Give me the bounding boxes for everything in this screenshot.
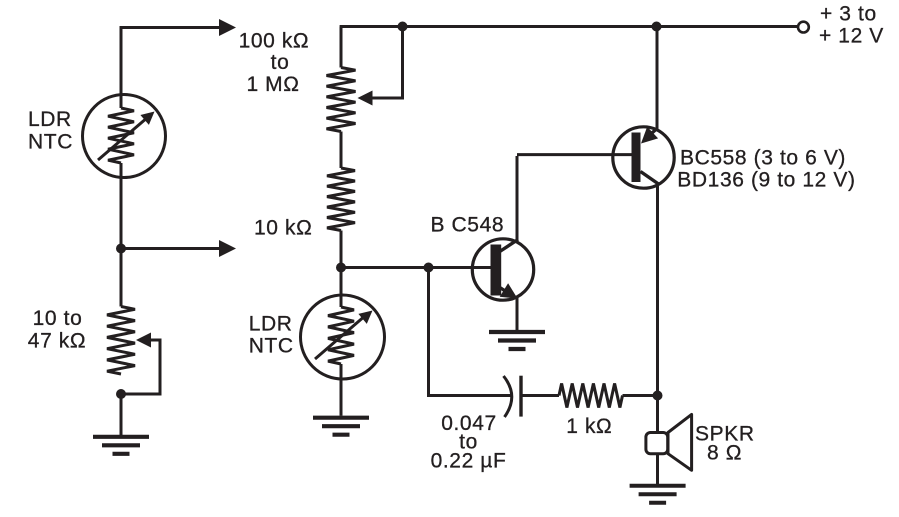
svg-text:1 kΩ: 1 kΩ <box>566 415 612 438</box>
svg-text:NTC: NTC <box>28 131 73 154</box>
svg-text:10 kΩ: 10 kΩ <box>254 217 312 240</box>
svg-text:1 MΩ: 1 MΩ <box>246 73 299 96</box>
svg-text:+ 3 to: + 3 to <box>820 3 877 26</box>
svg-text:+ 12 V: + 12 V <box>819 25 884 48</box>
svg-text:LDR: LDR <box>249 313 293 336</box>
svg-text:B C548: B C548 <box>431 214 505 237</box>
svg-text:BD136 (9 to 12 V): BD136 (9 to 12 V) <box>677 169 855 192</box>
svg-text:LDR: LDR <box>28 108 72 131</box>
svg-text:47 kΩ: 47 kΩ <box>28 330 86 353</box>
svg-text:NTC: NTC <box>249 335 294 358</box>
svg-text:100 kΩ: 100 kΩ <box>239 30 310 53</box>
svg-text:10 to: 10 to <box>33 307 83 330</box>
svg-text:0.22 µF: 0.22 µF <box>431 450 507 473</box>
svg-text:8 Ω: 8 Ω <box>707 442 742 465</box>
svg-text:BC558 (3 to 6 V): BC558 (3 to 6 V) <box>680 147 846 170</box>
svg-text:to: to <box>271 51 290 74</box>
